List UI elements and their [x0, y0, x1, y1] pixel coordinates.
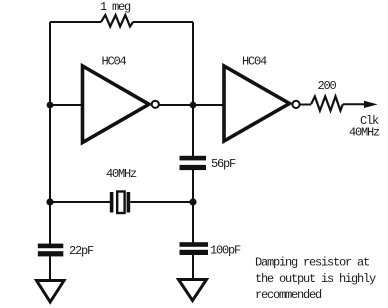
- node junction left input: [47, 102, 54, 109]
- op-amp U2 inverter HC04 triangle: [224, 66, 290, 141]
- wire U1 output to U2 input: [159, 104, 225, 106]
- svg-text:40MHz: 40MHz: [106, 167, 137, 181]
- resistor R2 200 zigzag: [311, 96, 343, 110]
- svg-text:the output is highly: the output is highly: [255, 272, 376, 286]
- svg-text:40MHz: 40MHz: [349, 126, 380, 140]
- svg-text:56pF: 56pF: [211, 157, 236, 171]
- crystal Y1 left plate: [110, 192, 114, 213]
- svg-text:HC04: HC04: [102, 55, 127, 69]
- wire input to U1: [50, 104, 83, 106]
- ground right: [179, 280, 207, 301]
- capacitor C1 22pF bottom plate: [38, 251, 64, 256]
- output arrowhead: [364, 101, 378, 108]
- capacitor C2 56pF top plate: [180, 156, 207, 161]
- wire right rail upper: [192, 22, 194, 156]
- op-amp U1 inverter HC04 triangle: [83, 66, 150, 143]
- svg-text:HC04: HC04: [242, 55, 267, 69]
- capacitor C3 100pF top plate: [180, 242, 209, 247]
- wire crystal right: [130, 201, 193, 203]
- wire U2 output to R2: [300, 104, 311, 106]
- node junction mid: [190, 102, 197, 109]
- svg-text:100pF: 100pF: [210, 244, 241, 258]
- crystal Y1 right plate: [127, 192, 131, 213]
- wire top feedback left segment: [50, 21, 101, 23]
- svg-text:recommended: recommended: [255, 288, 322, 302]
- node junction crystal left: [46, 198, 53, 205]
- U1 output bubble: [152, 101, 159, 108]
- svg-text:22pF: 22pF: [69, 244, 94, 258]
- wire output arrow line: [343, 103, 366, 105]
- node junction crystal right: [189, 198, 196, 205]
- wire right rail mid: [192, 170, 194, 243]
- wire crystal left: [50, 201, 110, 203]
- capacitor C3 100pF bottom plate: [180, 250, 209, 255]
- ground left: [37, 281, 65, 303]
- svg-text:200: 200: [318, 79, 337, 93]
- resistor R1 1 meg zigzag: [101, 15, 133, 27]
- wire left rail: [49, 22, 51, 244]
- capacitor C1 22pF top plate: [38, 244, 64, 249]
- svg-text:Damping resistor at: Damping resistor at: [255, 256, 369, 270]
- U2 output bubble: [292, 101, 299, 108]
- wire right rail lower: [192, 255, 194, 280]
- svg-text:1 meg: 1 meg: [100, 0, 131, 14]
- wire top feedback right segment: [133, 21, 193, 23]
- crystal Y1 body box: [117, 192, 124, 214]
- capacitor C2 56pF bottom plate: [180, 165, 207, 170]
- wire below C1: [49, 256, 51, 281]
